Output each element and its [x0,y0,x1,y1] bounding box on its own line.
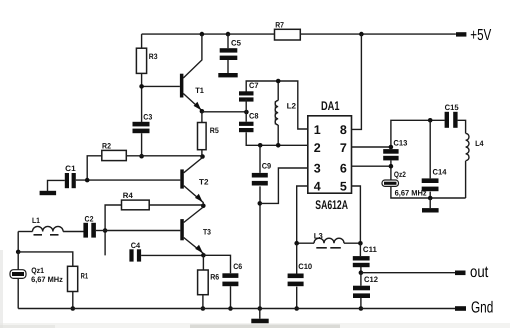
crystal Qz2 [382,170,427,197]
wire out line [361,272,455,274]
inductor L4 [466,133,485,198]
wire C15 right to L4 [458,120,466,133]
wire C8 bottom to pin2 row [246,132,308,145]
svg-text:1: 1 [314,123,321,137]
ground bar at C1 [40,191,57,195]
svg-text:6,67 MHz: 6,67 MHz [31,275,63,284]
node junction L2 top [276,79,281,84]
wire ground rail [18,308,455,310]
wire tank top from pin7 vertical [391,120,445,147]
wire C13 to Qz2 [390,160,392,180]
resistor R1 [68,266,78,291]
wire Qz1 node to R1 [18,252,73,270]
svg-text:C5: C5 [231,38,242,47]
node junction L3 left / pin4 / C10 [294,241,299,246]
inductor L3 [297,232,361,248]
capacitor C10 [288,274,304,279]
ground bar below rail [259,309,261,319]
svg-text:C1: C1 [65,164,76,173]
svg-text:+5V: +5V [470,27,491,44]
wire L1 left down [17,232,19,252]
node junction T1 collector on rail [200,32,205,37]
node junction R5 bottom / T2 collector [200,154,205,159]
svg-text:T2: T2 [199,178,209,187]
wire C1 right to T2 base [76,179,181,181]
node junction C5 on rail [226,32,231,37]
capacitor C8 [239,122,254,126]
capacitor C15 [445,103,460,128]
inductor L2 [275,81,297,145]
node junction T3 emitter [201,253,206,258]
node junction C9 bottom / pin3 [258,201,263,206]
wire pin4 to L3 left [297,186,308,243]
svg-text:2: 2 [314,141,321,155]
terminal out [455,271,466,276]
wire C10 branch [296,243,298,308]
wire R4 left lead / branch vertical [105,205,121,255]
svg-text:Qz2: Qz2 [394,170,407,179]
node junction pin8 on rail [359,32,364,37]
node junction C9 top [258,143,263,148]
wire between C7 and C8 [245,99,247,122]
node junction C12 on rail [359,306,364,311]
wire pin7 to C13 [352,146,391,148]
node junction L3 right / pin5 / C11 [358,241,363,246]
wire R3 bottom to T1 base and C3 [142,73,180,122]
wire Qz1 bottom to rail [17,278,19,308]
resistor R6 [198,270,209,295]
capacitor C11 [353,256,370,260]
resistor R7 [275,29,301,40]
node junction C13 top [389,145,394,150]
node junction T1 base [139,84,144,89]
svg-text:C4: C4 [131,241,141,250]
svg-text:8: 8 [340,123,347,137]
svg-text:6: 6 [340,161,347,175]
node junction C14 bottom [428,196,433,201]
wire C7 top / tank top [246,81,308,129]
capacitor C4 [129,249,133,261]
svg-text:T3: T3 [203,228,212,237]
svg-text:7: 7 [340,141,347,155]
wire pin3 jog [260,168,308,203]
wire pin5 to L3 right [352,186,361,243]
terminal Gnd [455,306,466,311]
node junction pin6/Qz2 [389,164,394,169]
wire T3 emitter down to R6 [202,255,204,270]
svg-text:C12: C12 [364,275,379,284]
wire T3 emitter to C6 [203,255,230,273]
svg-text:C8: C8 [249,112,259,121]
resistor R3 [136,48,146,73]
node junction C9 on rail [258,306,263,311]
node junction base branch [103,228,108,233]
node junction L2 bottom [276,143,281,148]
capacitor C12 [353,286,370,291]
wire C14 branch [429,120,431,198]
ground bar under C14 [429,198,431,208]
scan smudge left edge [0,250,3,328]
wire R5 bottom [201,150,203,157]
capacitor C6 [222,273,238,278]
svg-text:C14: C14 [433,168,448,177]
wire R4 right lead [149,204,203,206]
wire pin8 to +5V rail [352,34,362,129]
node junction C7/C8 [244,110,249,115]
resistor R5 [198,123,207,150]
inductor L1 [18,216,83,235]
resistor R2 [102,150,127,160]
wire C9 branch [259,145,261,308]
svg-text:SA612A: SA612A [315,198,348,212]
svg-text:DA1: DA1 [321,99,340,113]
wire T1 emitter to C7/C8 node [202,111,247,113]
wire R2 row to R5 bottom [126,155,202,157]
wire C2 right to base node [96,230,105,232]
wire C3 bottom to R2/R5 row [141,133,143,156]
node junction R1 on rail [71,306,76,311]
capacitor C5 [220,34,242,73]
wire T1 emitter down to R5 [201,111,203,122]
wire top +5V rail [142,34,456,48]
capacitor C13 [383,149,398,154]
capacitor C1 [65,173,69,188]
wire C4 right lead [141,254,203,256]
transistor T1 [180,34,205,111]
node junction T1 emitter [200,109,205,114]
node junction Qz1 top [16,250,21,255]
node junction R6 on rail [201,306,206,311]
IC DA1 SA612A [308,99,352,212]
svg-text:C10: C10 [298,262,313,271]
svg-text:R5: R5 [210,126,220,135]
node junction T2 emitter / R4 / T3 collector [201,204,206,209]
capacitor C3 [133,122,150,127]
node junction C10 on rail [294,306,299,311]
scan smudge bottom [0,323,510,328]
node junction C14 top [428,118,433,123]
svg-text:L4: L4 [475,139,484,148]
svg-text:5: 5 [340,180,347,194]
wire pin6 to Qz2 top [352,165,391,167]
svg-text:R1: R1 [81,271,89,280]
capacitor C7 [239,91,254,95]
svg-text:C9: C9 [262,162,272,171]
node junction C6 on rail [228,306,233,311]
svg-text:out: out [470,264,489,281]
wire C1 left lead [48,180,65,191]
transistor T2 [180,158,209,206]
svg-text:R7: R7 [275,20,284,29]
crystal Qz1 [10,266,63,284]
capacitor C2 [83,214,96,237]
ground bar under C5 [218,73,237,77]
svg-text:R2: R2 [102,142,112,151]
svg-text:L1: L1 [32,216,41,225]
svg-text:C7: C7 [249,81,259,90]
svg-text:Qz1: Qz1 [31,266,44,275]
svg-text:T1: T1 [195,86,204,95]
svg-text:R4: R4 [123,191,134,200]
svg-text:C15: C15 [445,103,460,112]
svg-text:C2: C2 [85,214,95,223]
svg-text:C6: C6 [233,262,243,271]
wire C11 branch [359,243,362,272]
wire C12 branch [360,273,362,309]
svg-text:Gnd: Gnd [471,299,493,316]
svg-text:R3: R3 [149,52,158,61]
wire Qz2 bottom / tank bottom [391,186,466,198]
wire R6 bottom to rail [202,295,204,309]
capacitor C14 [422,178,439,183]
svg-text:L2: L2 [287,101,297,110]
svg-text:C13: C13 [393,139,408,148]
svg-text:L3: L3 [314,232,324,241]
wire R2 left lead down to C1 node [87,156,102,180]
resistor R4 [122,200,150,210]
terminal +5V [456,32,466,36]
svg-text:C3: C3 [143,113,153,122]
svg-text:4: 4 [314,180,321,194]
svg-text:C11: C11 [363,245,378,254]
transistor T3 [180,207,211,255]
svg-text:R6: R6 [210,272,220,281]
node junction C1/R2 [85,178,90,183]
wire R1 bottom to rail [72,292,74,309]
wire C6 bottom to rail [230,286,232,308]
node junction C3 bottom [139,154,144,159]
svg-text:3: 3 [314,161,321,175]
capacitor C9 [252,173,268,178]
node junction C11/C12/out [359,270,364,275]
wire base node to T3 base [105,230,180,232]
